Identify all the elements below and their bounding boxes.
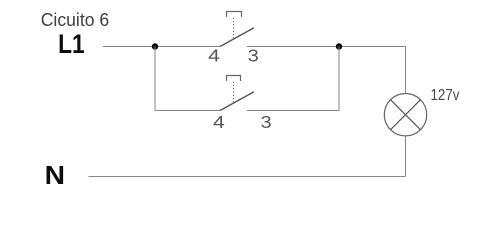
switch S1 actuator dotted link [233,18,235,39]
svg-text:4: 4 [208,46,220,66]
wire S2 input [155,110,220,112]
lamp E1 cross [391,100,421,130]
wire branch down from node A [154,47,156,111]
switch S1 actuator bracket [227,12,242,18]
wire down to lamp [405,46,407,94]
wire L1 feed [103,46,220,48]
switch S2 lever [220,92,254,111]
wire S2 output [247,110,339,112]
switch S2 actuator bracket [227,76,241,82]
svg-text:127v: 127v [431,87,460,104]
svg-text:Cicuito 6: Cicuito 6 [41,10,110,30]
wire N return [89,176,406,178]
wire branch up to node B [338,47,340,111]
svg-text:3: 3 [261,112,272,132]
svg-text:4: 4 [213,112,225,132]
svg-text:N: N [45,162,65,189]
wire S1 output to lamp corner [247,46,406,48]
node junction dot B [336,43,342,49]
svg-text:L1: L1 [58,29,85,59]
svg-text:3: 3 [248,46,259,66]
switch S2 actuator dotted link [233,82,235,103]
lamp E1 circle [384,94,426,136]
node junction dot A [152,43,158,49]
switch S1 lever [220,28,254,47]
wire lamp to N [405,136,407,177]
